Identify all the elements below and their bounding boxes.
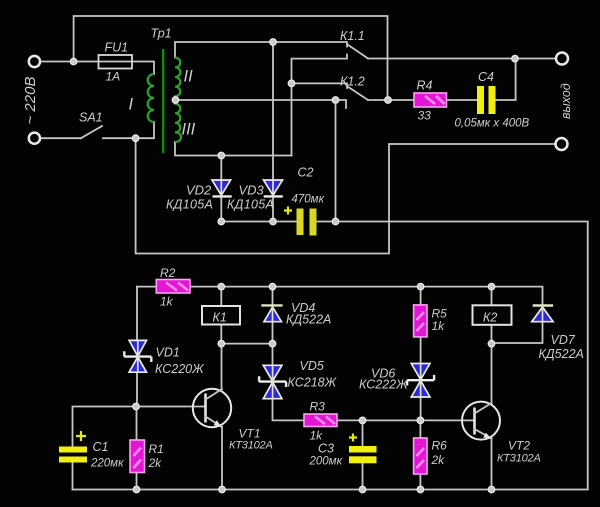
wire mains neutral from terminal to SA1 pivot [40, 137, 81, 139]
svg-text:SA1: SA1 [79, 111, 103, 125]
switch SA1 blade [81, 126, 102, 138]
wire VT1 collector riser [221, 344, 223, 389]
wire bottom ground rail [73, 489, 588, 491]
relay coil K2 [473, 305, 512, 325]
node VD6 R6 base [417, 417, 424, 424]
wire zero rail: C2 right plate to right border down to bottom rail [317, 222, 588, 490]
terminal mains top [29, 56, 40, 67]
relay contact K1.2 blade [348, 87, 369, 101]
wire VD4 leads [272, 287, 274, 344]
diode VD3 [264, 180, 283, 196]
terminal output bottom [556, 138, 568, 150]
transformer winding I [148, 74, 154, 122]
wire center tap to K1.2 lower fixed contact [175, 96, 346, 108]
node R2 to plus rail [218, 283, 225, 290]
node K1.2 common / top rail [385, 97, 392, 104]
node R3 C3 [359, 417, 366, 424]
node R1 ground [133, 486, 140, 493]
svg-text:К1: К1 [213, 311, 227, 325]
node SA1 to primary bottom [132, 135, 139, 142]
resistor R1 [130, 440, 145, 473]
wire neutral run: SA1 node down, across, up to output bottom terminal [136, 138, 556, 253]
transformer Tp1 core [162, 49, 164, 153]
node VT2 emitter ground [488, 486, 495, 493]
resistor R5 [414, 305, 427, 337]
node VT1 emitter ground [219, 486, 226, 493]
terminal output top [556, 53, 568, 65]
relay coil K1 [202, 306, 240, 325]
wire R4 to C4 [447, 99, 478, 101]
svg-text:КС218Ж: КС218Ж [288, 376, 338, 390]
svg-text:КТ3102А: КТ3102А [497, 453, 541, 465]
node C3 ground [359, 486, 366, 493]
wire top rail from fuse node up, across, down to K1.2 common [74, 16, 388, 100]
node VD3 anode on winding II line [270, 39, 277, 46]
wire VT2 emitter drop [491, 439, 493, 490]
svg-text:R2: R2 [160, 266, 176, 280]
wire K1.2 common to R4 [368, 99, 414, 101]
svg-text:VD3: VD3 [239, 183, 265, 198]
svg-text:470мк: 470мк [292, 194, 325, 206]
svg-text:VD2: VD2 [186, 183, 212, 198]
svg-text:VT2: VT2 [508, 439, 530, 453]
svg-text:КД522А: КД522А [539, 347, 584, 361]
wire K1 coil leads [220, 287, 222, 344]
node K1 contact cross link [288, 80, 295, 87]
node VD4 anode [269, 340, 276, 347]
wire K1.1 common to output top terminal [368, 58, 557, 60]
svg-text:1k: 1k [310, 429, 324, 443]
wire VD5 leads into R3 [273, 344, 305, 421]
svg-text:R3: R3 [310, 400, 326, 414]
svg-text:К1.2: К1.2 [340, 75, 365, 89]
wire VT2 collector riser [491, 344, 493, 403]
wire VT1 base line [136, 406, 206, 408]
wire SA1 contact to primary bottom [103, 122, 154, 138]
svg-text:C2: C2 [298, 166, 314, 180]
node C2 right plate [332, 218, 339, 225]
svg-text:C1: C1 [93, 440, 109, 454]
svg-text:FU1: FU1 [105, 41, 129, 55]
diode VD7 [532, 306, 553, 322]
svg-text:R6: R6 [432, 439, 448, 453]
wire VD6 bottom lead [420, 397, 422, 420]
diode VD2 [212, 180, 232, 196]
wire K1 bottom node to VD4 [221, 343, 272, 345]
svg-text:КД105А: КД105А [166, 198, 213, 212]
svg-text:КД522А: КД522А [286, 313, 331, 327]
svg-text:1A: 1A [106, 70, 121, 84]
wire center tap node down to C2 right plate [335, 100, 337, 222]
node center tap drop [332, 97, 339, 104]
svg-text:выход: выход [559, 83, 573, 119]
svg-text:C4: C4 [478, 70, 494, 84]
wire VD3 leads from winding II line [272, 42, 274, 222]
svg-text:0,05мк х 400В: 0,05мк х 400В [455, 118, 530, 130]
wire R6 leads [419, 420, 421, 489]
svg-text:C3: C3 [318, 442, 334, 456]
node VD3 cathode plus rail [270, 218, 277, 225]
node R6 ground [417, 486, 424, 493]
zener VD6 [407, 364, 434, 398]
node VD2 cathode plus rail [218, 218, 225, 225]
wire K1.2 upper fixed contact line [292, 83, 348, 88]
svg-text:КС222Ж: КС222Ж [359, 378, 409, 392]
node VD2 anode [218, 152, 225, 159]
transistor VT1 [193, 389, 231, 428]
relay contact K1.1 blade [348, 45, 369, 59]
transformer winding III [175, 104, 181, 142]
wire K1.1 second fixed contact line [292, 55, 348, 156]
svg-text:33: 33 [418, 109, 432, 123]
diode VD4 [261, 305, 282, 321]
capacitor C3 [349, 434, 377, 464]
zener VD1 [124, 340, 151, 372]
svg-text:1k: 1k [160, 295, 174, 309]
node K1 bottom / VT1 collector [218, 340, 225, 347]
svg-text:VD1: VD1 [156, 346, 180, 360]
node VD1 bottom base line [133, 403, 140, 410]
transistor VT2 [462, 402, 500, 440]
node center tap [172, 97, 179, 104]
svg-text:II: II [184, 68, 194, 86]
svg-text:К2: К2 [483, 311, 497, 325]
svg-text:R4: R4 [417, 79, 433, 93]
wire winding II top to K1.1 fixed contact [175, 42, 347, 58]
svg-text:К1.1: К1.1 [340, 29, 365, 43]
svg-text:VD7: VD7 [551, 333, 576, 347]
svg-text:VD5: VD5 [300, 359, 324, 373]
svg-text:Тр1: Тр1 [151, 27, 172, 41]
node C4 to output line [512, 55, 519, 62]
wire VD7 bottom to K2 node [492, 322, 543, 343]
terminal mains bottom [29, 133, 40, 144]
wire VT1 emitter drop [221, 427, 223, 490]
wire C4 to output top line [496, 59, 516, 100]
svg-text:КД105А: КД105А [227, 198, 274, 212]
node fuse junction [70, 58, 77, 65]
wire K2 coil leads [491, 287, 493, 344]
svg-text:I: I [129, 96, 134, 114]
wire VD2 leads [220, 156, 222, 222]
svg-text:R1: R1 [149, 442, 164, 456]
svg-text:2k: 2k [431, 453, 446, 467]
resistor R6 [414, 438, 427, 474]
zener VD5 [259, 365, 286, 398]
wire C3 leads [362, 420, 364, 489]
wire mains live: terminal to fuse to primary top [40, 62, 154, 75]
wire plus rail into C2 left plate [221, 221, 296, 223]
node K2 top [488, 283, 495, 290]
fuse FU1 [99, 55, 133, 69]
resistor R3 [304, 414, 337, 427]
capacitor C4 [477, 86, 496, 114]
node K2 bottom / VT2 collector [488, 340, 495, 347]
capacitor C2 [284, 207, 317, 236]
transformer winding II [175, 58, 180, 97]
wire R1 leads [136, 407, 138, 490]
wire lower plus rail left end into R2 [137, 286, 156, 288]
svg-text:VT1: VT1 [239, 427, 261, 441]
wire VD1 leads [136, 287, 138, 407]
svg-text:~ 220В: ~ 220В [22, 77, 39, 125]
wire VD1 node to C1 [73, 407, 137, 490]
wire lower plus rail from R2 to VD7 drop [190, 287, 543, 305]
svg-text:КТ3102А: КТ3102А [229, 440, 273, 452]
svg-text:КС220Ж: КС220Ж [155, 362, 205, 376]
resistor R2 [156, 280, 190, 294]
wire winding III bottom to rectifier line [175, 142, 292, 156]
resistor R4 [414, 93, 447, 107]
svg-text:1k: 1k [432, 319, 446, 333]
svg-text:200мк: 200мк [309, 456, 343, 468]
wire R3 to VT2 base [337, 419, 475, 421]
node VD4 cathode rail [269, 283, 276, 290]
svg-text:2k: 2k [148, 456, 163, 470]
wire R5 leads [420, 287, 422, 364]
svg-text:220мк: 220мк [90, 458, 124, 470]
svg-text:III: III [182, 121, 196, 139]
capacitor C1 [59, 431, 87, 463]
node R5 top [417, 283, 424, 290]
